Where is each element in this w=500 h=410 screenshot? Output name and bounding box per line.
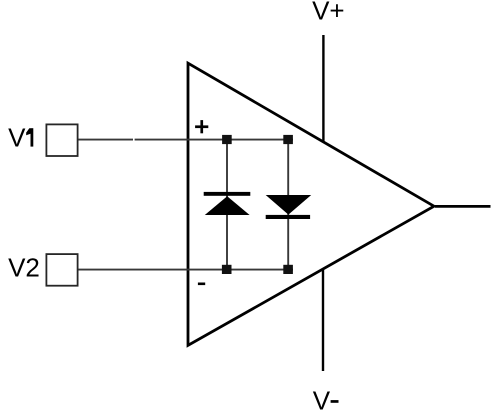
svg-text:V: V bbox=[8, 123, 26, 153]
svg-text:V+: V+ bbox=[312, 0, 345, 26]
svg-text:V: V bbox=[313, 386, 331, 410]
svg-text:V2: V2 bbox=[8, 253, 40, 283]
